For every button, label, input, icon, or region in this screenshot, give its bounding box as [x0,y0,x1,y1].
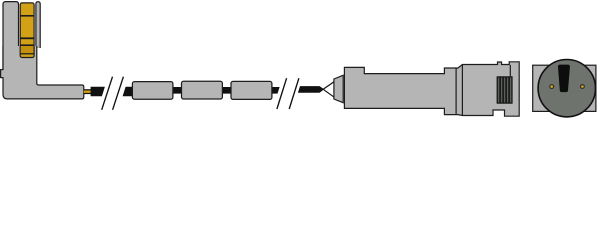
cable into connector [298,86,324,93]
strain relief fan line lower [323,89,334,97]
main cable run [130,87,280,94]
connector nut line 1 [455,68,457,114]
strain relief fan line upper [323,82,334,90]
grommet 2 [182,81,223,99]
connector nut line 2 [461,65,463,115]
socket pin left [549,84,554,89]
cable break mark right slash 1 [277,78,287,109]
socket keyway slot [558,65,570,93]
sensor head right wall post [36,2,40,48]
knurled cap edge line [509,65,511,77]
cable break mark left slash 1 [102,77,113,110]
yellow lead wire [84,89,91,94]
grommet 3 [231,81,272,99]
cable break mark left slash 2 [113,77,124,110]
connector housing body [344,62,519,116]
gold contact blade [20,3,34,58]
cable stub after break [123,87,135,96]
grommet 1 [132,82,173,100]
knurled grip band [497,77,512,103]
cable break mark right slash 2 [289,78,299,109]
socket mounting plate [533,65,596,111]
connector boot trapezoid [334,75,343,102]
socket round face [538,59,595,116]
black sleeve segment [91,87,105,96]
socket pin right [580,84,585,89]
sensor head left wall bar [3,2,19,70]
sensor body L-shape [1,46,84,99]
